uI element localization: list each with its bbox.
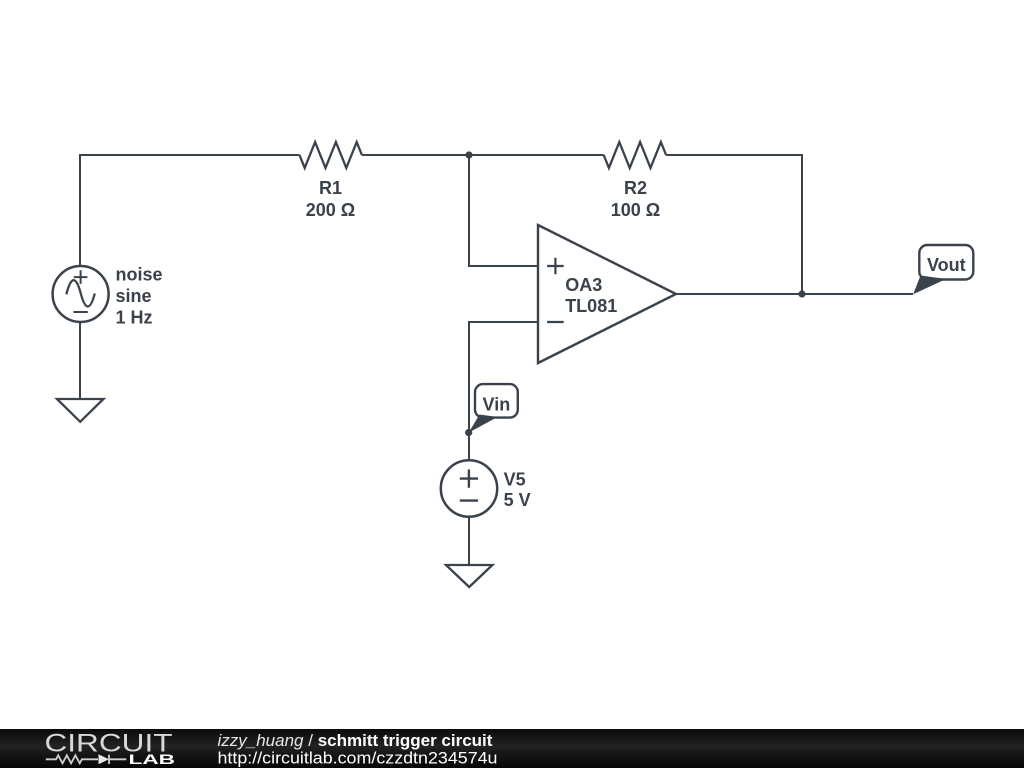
Vout flag tail (913, 276, 946, 295)
svg-text:OA3: OA3 (565, 275, 602, 295)
svg-text:sine: sine (116, 286, 152, 306)
resistor R2 (604, 142, 666, 168)
svg-text:R2: R2 (624, 178, 647, 198)
ground (V5) (446, 565, 492, 587)
svg-text:100 Ω: 100 Ω (611, 200, 660, 220)
V4 plus sign (74, 270, 88, 284)
svg-text:200 Ω: 200 Ω (306, 200, 355, 220)
resistor R1 (300, 142, 362, 168)
svg-text:LAB: LAB (129, 752, 176, 767)
svg-text:Vin: Vin (483, 394, 511, 414)
wire: R2 to feedback corner down to output node (666, 155, 802, 294)
Vin node junction dot (465, 429, 472, 436)
node A junction dot (465, 151, 472, 158)
logo diode triangle (99, 754, 109, 764)
ground (noise source) (57, 399, 103, 422)
wire: noise source top to R1 (80, 155, 300, 266)
wire: V5 bottom to ground (468, 517, 470, 565)
op-amp OA3 triangle (538, 225, 676, 363)
svg-text:1 Hz: 1 Hz (116, 308, 153, 328)
svg-text:R1: R1 (319, 178, 342, 198)
svg-text:5 V: 5 V (504, 490, 531, 510)
op-amp - input symbol (547, 321, 564, 323)
logo schematic squiggle: wire resistor diode (46, 755, 127, 764)
Vin flag box (475, 384, 518, 418)
output node junction dot (798, 290, 805, 297)
wire: op-amp - input left and down to Vin node (469, 322, 538, 461)
wire: node A to R2 (469, 154, 604, 156)
svg-text:TL081: TL081 (565, 296, 617, 316)
svg-text:Vout: Vout (927, 255, 966, 275)
svg-text:izzy_huang / schmitt trigger c: izzy_huang / schmitt trigger circuit (218, 731, 493, 750)
wire: V4 bottom to ground (79, 322, 81, 399)
svg-text:http://circuitlab.com/czzdtn23: http://circuitlab.com/czzdtn234574u (218, 749, 498, 768)
V4 minus sign (73, 311, 87, 313)
wire: R1 to node A (362, 154, 469, 156)
V5 plus sign (460, 470, 478, 488)
Vin flag tail (469, 415, 498, 433)
V4 sine symbol (66, 280, 95, 306)
Vout flag box (919, 245, 973, 280)
voltage source V4 noise circle (53, 266, 109, 322)
svg-text:noise: noise (116, 265, 163, 285)
voltage source V5 circle (441, 460, 497, 516)
op-amp + input symbol (547, 258, 564, 275)
footer bar (0, 729, 1024, 768)
V5 minus sign (460, 499, 478, 501)
svg-text:V5: V5 (504, 470, 526, 490)
wire: op-amp output to Vout flag (676, 293, 913, 295)
wire: node A down to op-amp + input (469, 155, 538, 266)
